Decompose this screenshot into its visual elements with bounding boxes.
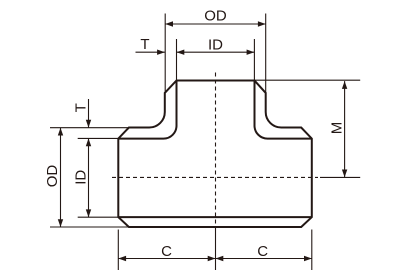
- extension line OD top right: [265, 14, 267, 94]
- extension line OD top left: [164, 14, 166, 94]
- extension line M top: [255, 79, 361, 81]
- svg-text:T: T: [140, 36, 149, 53]
- extension line ID left bottom: [78, 216, 119, 218]
- svg-text:OD: OD: [204, 8, 227, 25]
- extension line ID top right: [253, 39, 255, 81]
- tee inner bore left wall: [118, 81, 176, 139]
- svg-text:C: C: [257, 243, 268, 260]
- extension line ID top left: [176, 39, 178, 81]
- extension line C left: [117, 230, 119, 271]
- svg-text:OD: OD: [44, 165, 61, 188]
- dimension ID top: [177, 36, 255, 55]
- extension line OD left bottom: [50, 226, 128, 228]
- svg-text:C: C: [161, 243, 172, 260]
- vertical centerline: [215, 73, 217, 271]
- dimension C bottom: [118, 243, 311, 261]
- tee inner bore right wall: [255, 81, 312, 139]
- extension line M bottom: [320, 176, 360, 178]
- extension line OD left top: [50, 127, 128, 129]
- dimension T top: [136, 36, 165, 55]
- svg-text:M: M: [328, 122, 345, 135]
- horizontal centerline: [112, 176, 318, 178]
- dimension OD top: [165, 8, 266, 27]
- dimension ID left: [73, 138, 92, 217]
- svg-text:T: T: [73, 103, 90, 112]
- extension line ID left top: [78, 137, 119, 139]
- dimension OD left: [44, 128, 63, 227]
- dimension M right: [328, 81, 347, 177]
- svg-text:ID: ID: [208, 36, 223, 53]
- dimension T left: [73, 99, 92, 128]
- tee inner bore bottom: [118, 216, 311, 218]
- tee outer outline: [118, 81, 311, 228]
- extension line C right: [311, 230, 313, 271]
- svg-text:ID: ID: [73, 170, 90, 185]
